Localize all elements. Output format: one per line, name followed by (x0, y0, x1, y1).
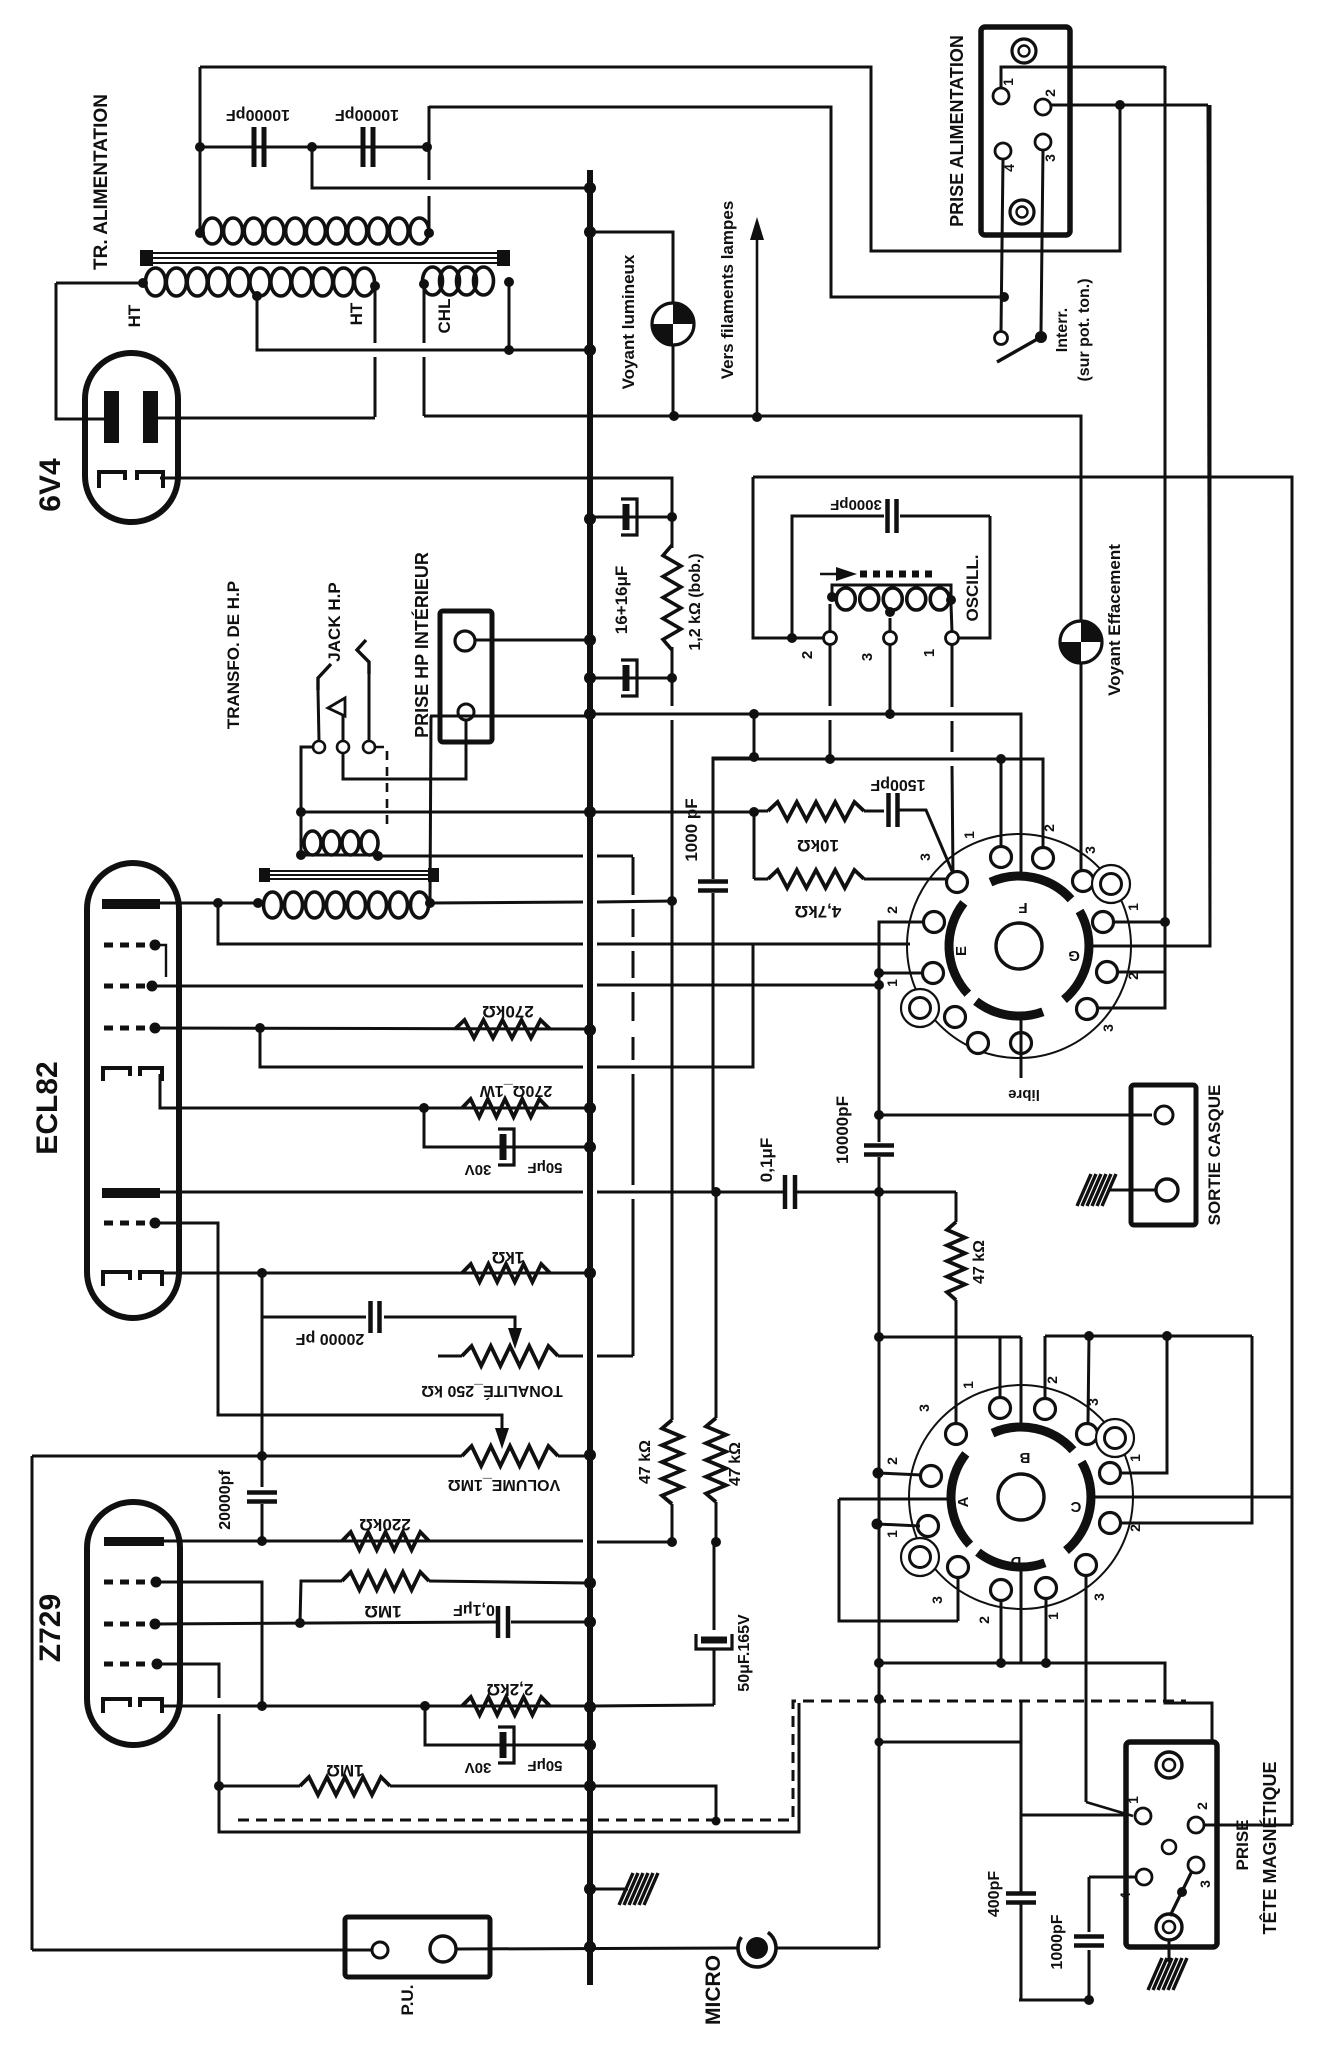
pin S1 outer b (901, 989, 939, 1027)
node osc right (946, 595, 956, 605)
wire lamp top feed (590, 232, 673, 303)
node top rail junction (1115, 100, 1125, 110)
label 30V a (465, 1161, 492, 1178)
svg-text:HT: HT (125, 304, 144, 327)
capacitor C11 20000pF (371, 1301, 380, 1333)
wire jack tri lead (342, 716, 345, 741)
node 16uF bot j (667, 673, 677, 683)
pin jack 2 (337, 741, 349, 753)
svg-text:0,1μF: 0,1μF (453, 1601, 495, 1618)
label alim 1 (1000, 78, 1016, 86)
label S2 A (955, 1496, 972, 1507)
svg-text:TRANSFO. DE H.P: TRANSFO. DE H.P (224, 581, 243, 729)
node T1 primary right (424, 228, 434, 238)
node bus junction 9 (584, 1102, 596, 1114)
capacitor C9 0,1uF (785, 1175, 795, 1209)
node S1 pin1l j (874, 968, 884, 978)
svg-text:1: 1 (961, 831, 977, 839)
label S1 n1r (1125, 903, 1141, 911)
pin S1 p8 (1097, 962, 1118, 983)
switch interrupter (995, 331, 1048, 362)
resistor R5 47k v (662, 1420, 682, 1504)
wire 16uF cap1 line (590, 516, 672, 519)
screw tete top (1156, 1752, 1182, 1778)
wire S2 pin1l (877, 1524, 920, 1526)
label osc 1 (921, 649, 938, 657)
capacitor C17 50uF165V (696, 1634, 732, 1649)
svg-text:10000pF: 10000pF (833, 1096, 852, 1164)
svg-text:HT: HT (347, 302, 366, 325)
wire S2 B stub (1020, 1337, 1023, 1427)
wire x1021 v (1020, 1700, 1023, 1893)
label 270ohm 1W (479, 1082, 552, 1099)
wire V3 g1 tie (156, 1582, 262, 1706)
wire x754 v (753, 812, 756, 879)
label ECL82 (31, 1061, 64, 1154)
label S2 n1r (1127, 1454, 1143, 1462)
svg-text:3: 3 (929, 1596, 945, 1604)
wire micro branch (879, 1741, 1021, 1744)
capacitor C3 16uF (619, 499, 637, 535)
pin S1 p9 (945, 1007, 966, 1028)
wire S2 pin3r (1088, 1336, 1089, 1423)
node S2 c6 j (1084, 1331, 1094, 1341)
resistor R13 1M (342, 1572, 429, 1590)
pin S1 p12 (1011, 1033, 1032, 1054)
svg-text:3: 3 (1197, 1880, 1213, 1888)
svg-text:400pF: 400pF (986, 1871, 1003, 1917)
node bus junction 13 (584, 1577, 596, 1589)
transformer osc core dashes (860, 571, 934, 578)
wire S2 pin2l (878, 1473, 922, 1475)
tube V2 g4 dashes (104, 1221, 150, 1226)
wire T2 sec right lead (430, 901, 673, 903)
wire r1 bottom (671, 647, 674, 706)
wire r3 left (754, 878, 768, 881)
label 270k (482, 1002, 533, 1021)
svg-text:TÊTE MAGNÉTIQUE: TÊTE MAGNÉTIQUE (1259, 1761, 1280, 1934)
node V3 k j2 (420, 1701, 430, 1711)
wire jack3 dashed (375, 747, 387, 828)
node bus junction 6 (584, 708, 596, 720)
node S2 pin2l j (873, 1468, 884, 1479)
node V3 k j1 (257, 1701, 267, 1711)
wire pin1 line (1021, 1814, 1126, 1817)
wire S2 pin1b (1045, 1599, 1048, 1663)
wire S2 pin1t (999, 1352, 1002, 1397)
label 6V4 (34, 458, 67, 512)
svg-text:1MΩ: 1MΩ (326, 1761, 363, 1780)
label HT left (125, 304, 144, 327)
pin S1 p1 (991, 847, 1012, 868)
pin S1 p7 (923, 963, 944, 984)
resistor R3 4,7k (768, 870, 864, 888)
pin S1 outer a (1092, 865, 1130, 903)
wire 3000pF left riser (792, 516, 884, 638)
tube V3 g1 dashes (104, 1580, 152, 1585)
wire 165v riser (713, 1542, 716, 1630)
wire pin4 line (1089, 1876, 1137, 1879)
svg-text:2: 2 (1127, 1524, 1143, 1532)
wire V3 g2 line (155, 1622, 497, 1624)
label 0,1uF b (453, 1601, 495, 1618)
wire osc2 down (829, 645, 832, 759)
wire filaments arrow (750, 217, 764, 417)
wire x262 chain (261, 1273, 264, 1487)
svg-text:libre: libre (1008, 1086, 1040, 1103)
wire HT left lead (56, 282, 143, 285)
wire main vertical bus (587, 170, 593, 1985)
lamp voyant lumineux (652, 303, 694, 345)
pin S1 p11 (968, 1033, 989, 1054)
tube V2 g2 dashes (104, 984, 148, 989)
label 2,2k (487, 1680, 534, 1699)
label TR. ALIMENTATION (91, 94, 112, 270)
pin S2 p1 (990, 1398, 1011, 1419)
connector alim box (981, 27, 1070, 235)
pin osc 1 (946, 632, 959, 645)
svg-text:PRISE ALIMENTATION: PRISE ALIMENTATION (947, 35, 967, 227)
capacitor C14 50uF 30V (496, 1727, 514, 1763)
svg-text:Interr.: Interr. (1054, 308, 1071, 352)
label S1 n3b (1100, 1024, 1116, 1032)
label S2 n1b (1045, 1612, 1061, 1620)
svg-text:10kΩ: 10kΩ (797, 836, 839, 855)
node lamp feed j (584, 226, 596, 238)
label S1 E (953, 946, 970, 956)
capacitor C1 10000pF (254, 127, 264, 167)
svg-text:C: C (1070, 1498, 1081, 1515)
svg-text:ECL82: ECL82 (31, 1061, 64, 1154)
svg-text:50μF.165V: 50μF.165V (736, 1614, 753, 1692)
label PRISE TETE 2 (1259, 1761, 1280, 1934)
svg-text:3: 3 (859, 653, 876, 661)
label S1 n3tl (917, 853, 933, 861)
pin alim 3 (1035, 134, 1051, 150)
node primary elbow junction (999, 292, 1009, 302)
resistor R10 tonalite pot (462, 1346, 558, 1366)
wire pot right (558, 1355, 633, 1358)
node bus junction 12 (584, 1449, 596, 1461)
node V2 g2 (147, 981, 158, 992)
pin S2 p9 (948, 1557, 969, 1578)
wire tonalite riser (378, 856, 633, 1356)
node shield tap (712, 1817, 721, 1826)
label 0,1uF v (757, 1138, 776, 1182)
capacitor C16 1000pF (1074, 1937, 1104, 1946)
screw alim bottom (1010, 200, 1034, 224)
pin S2 p10 (1076, 1555, 1097, 1576)
wire heater to right (674, 416, 1081, 620)
label C1 10000pF (226, 106, 290, 123)
svg-text:20000pf: 20000pf (217, 1470, 234, 1530)
svg-text:SORTIE CASQUE: SORTIE CASQUE (1205, 1085, 1224, 1226)
capacitor C6 3000pF (888, 499, 897, 533)
tube V3 Z729 envelope (87, 1502, 180, 1745)
label P.U. (398, 1985, 417, 2016)
transformer T1 secondary HT coil (145, 268, 374, 296)
label 1,2k bob (687, 553, 704, 650)
label 1k (492, 1248, 525, 1267)
label 16+16uF (612, 566, 631, 635)
node V3 1M j (295, 1618, 305, 1628)
label S2 C (1070, 1498, 1081, 1515)
label S2 n2l (884, 1457, 900, 1465)
wire osc3 down (889, 645, 892, 714)
wire sec tap down (257, 296, 586, 350)
resistor R9 1k (462, 1264, 550, 1282)
label VOLUME (448, 1476, 561, 1493)
label 47k v2 (637, 1440, 654, 1484)
wire screen line y714 (590, 714, 1021, 876)
wire c13 right (511, 1621, 586, 1624)
node x879 1699 (874, 1694, 884, 1704)
svg-text:MICRO: MICRO (702, 1955, 725, 2025)
label S2 n3tl (916, 1404, 932, 1412)
label S2 n3tr (1085, 1398, 1101, 1406)
wire r1 top (671, 517, 674, 548)
wire line y640 (476, 639, 590, 642)
wire CHL left down (423, 284, 426, 416)
tube V2 ECL82 envelope (87, 863, 179, 1318)
wire S1 pin1l lead (879, 972, 922, 975)
pin casque 1 (1155, 1106, 1173, 1124)
wire 1000pF riser (712, 759, 715, 879)
label S2 n1t (960, 1381, 976, 1389)
tube V1 plate bar 1 (104, 391, 119, 443)
connector tete box (1126, 1742, 1217, 1947)
node S2 pin3b j (996, 1658, 1006, 1668)
label osc 2 (799, 651, 816, 659)
pin S2 p11 (991, 1580, 1012, 1601)
pin PU 1 (372, 1942, 388, 1958)
wire 16uF cap2 line (590, 677, 672, 680)
svg-text:1,2 kΩ (bob.): 1,2 kΩ (bob.) (687, 553, 704, 650)
svg-text:1: 1 (1127, 1454, 1143, 1462)
label 1M a (364, 1602, 401, 1621)
node S2 pin1r j (1162, 1331, 1172, 1341)
wire jack1 elbow (301, 747, 313, 855)
transformer T1 primary coil (203, 218, 429, 244)
wire V2 k1 line (160, 1074, 586, 1108)
node V2 g1 j (255, 1023, 265, 1033)
pin S1 p4 (1073, 871, 1094, 892)
node V2 k2 j (257, 1268, 267, 1278)
svg-text:TR. ALIMENTATION: TR. ALIMENTATION (91, 94, 112, 270)
wire r3 right (864, 878, 950, 881)
wire V3 k line ext (594, 1705, 714, 1706)
wire gnd stub (590, 1888, 628, 1891)
wire c11 to pot (384, 1317, 515, 1340)
wire big loop left (753, 477, 827, 638)
label Interr 1 (1054, 308, 1071, 352)
wire speaker line y716 (430, 715, 590, 718)
coil L1 OSCILL (836, 588, 949, 610)
capacitor C15 400pF (1006, 1894, 1036, 1903)
wire S1 E line (753, 943, 910, 946)
node T2 sec left (253, 898, 263, 908)
wire S2 left rect (839, 1499, 958, 1621)
node T1 sec right (370, 281, 380, 291)
wire S2 C line (1091, 1496, 1292, 1499)
wire primary top elbow (429, 107, 999, 297)
pin jack 1 (313, 741, 325, 753)
wire x879 down (878, 985, 881, 1142)
node bus junction 5 (584, 672, 596, 684)
wire S2 pin1r (1121, 1336, 1167, 1473)
wire primary right riser (428, 106, 431, 180)
transformer T2 secondary coil (264, 892, 429, 918)
svg-text:1500pF: 1500pF (870, 776, 925, 793)
label S1 n3tr (1082, 846, 1098, 854)
node y760 pin1 (996, 754, 1006, 764)
pin alim 1 (993, 88, 1009, 104)
pin S2 p12 (1036, 1578, 1057, 1599)
pin S2 p8 (1100, 1513, 1121, 1534)
wire big loop top (753, 477, 1292, 1825)
node r5 j (667, 1537, 677, 1547)
label S2 n2t (1044, 1376, 1060, 1384)
node filaments j (752, 412, 762, 422)
node CHL right (504, 277, 514, 287)
wire line y812 (301, 811, 754, 814)
label tete 1 (1125, 1796, 1141, 1804)
wire x219 down (219, 1703, 799, 1832)
node x672 HP j (667, 896, 677, 906)
pin S2 p2 (1035, 1399, 1056, 1420)
node bus junction 10 (584, 1141, 596, 1153)
svg-text:B: B (1019, 1449, 1030, 1466)
screw tete bottom (1156, 1914, 1182, 1940)
wire volume right (558, 1455, 586, 1458)
svg-text:JACK H.P: JACK H.P (325, 582, 344, 661)
node T1 primary left (195, 228, 205, 238)
svg-text:270Ω_1W: 270Ω_1W (479, 1082, 552, 1099)
label SORTIE CASQUE (1205, 1085, 1224, 1226)
label libre (1008, 1086, 1040, 1103)
connector sortie casque box (1131, 1085, 1196, 1225)
tube V3 plate bar (104, 1537, 164, 1546)
capacitor C8 10000pF (864, 1146, 894, 1155)
label TONALITE (421, 1382, 563, 1401)
node bus junction 15 (584, 1701, 596, 1713)
pin S1 p6 (1093, 912, 1114, 933)
svg-text:47 kΩ: 47 kΩ (971, 1240, 988, 1284)
wire HT right down (374, 286, 377, 417)
wire S1 pin1r line (1114, 921, 1165, 924)
svg-text:50μF: 50μF (527, 1757, 562, 1774)
svg-text:4,7kΩ: 4,7kΩ (795, 902, 842, 921)
node V2 k1 j (419, 1103, 429, 1113)
wire 3000pF right (900, 515, 990, 518)
svg-text:1000pF: 1000pF (1049, 1914, 1066, 1969)
node V2 g1 (150, 1023, 161, 1034)
label OSCILL. (963, 554, 982, 621)
label tete 2 (1194, 1802, 1210, 1810)
wire 1M right (429, 1581, 586, 1583)
wire V2 g2 line (152, 985, 879, 986)
svg-text:G: G (1068, 947, 1080, 964)
svg-text:(sur pot. ton.): (sur pot. ton.) (1076, 278, 1093, 381)
wire S2 pin3bl stub (957, 1577, 960, 1621)
wire alim pin3 down (1041, 150, 1043, 332)
connector PU box (345, 1917, 490, 1977)
svg-text:1: 1 (1125, 903, 1141, 911)
node S1 pin1r j (1160, 917, 1170, 927)
wire volume line (32, 1455, 462, 1458)
wire tonalite left stub (438, 1355, 462, 1358)
label 1M b (326, 1761, 363, 1780)
svg-text:3: 3 (1082, 846, 1098, 854)
wire casque gnd (1110, 1189, 1156, 1192)
wire osc2 lead (829, 604, 832, 632)
svg-text:F: F (1018, 899, 1027, 916)
screw alim top (1012, 39, 1036, 63)
label S1 G (1068, 947, 1080, 964)
svg-text:3000pF: 3000pF (830, 496, 882, 513)
wire osc coil top (832, 585, 951, 600)
resistor R12 220k (342, 1532, 429, 1550)
label CHL (435, 299, 454, 334)
svg-text:1: 1 (960, 1381, 976, 1389)
node osc left (827, 592, 837, 602)
socket S1 body (907, 834, 1131, 1058)
wire osc1 down (952, 645, 953, 875)
label Interr 2 (1076, 278, 1093, 381)
node osc tap (885, 607, 895, 617)
wire 1000pF v (1088, 1877, 1091, 1932)
pin S2 p7 (918, 1516, 939, 1537)
wire V3 g3 line (157, 1664, 219, 1698)
resistor R15 1M b (300, 1777, 390, 1795)
label S1 n1l (884, 979, 900, 987)
wire x672 down (671, 720, 674, 1420)
wire tonalite arrow (508, 1328, 522, 1349)
pin alim 4 (995, 143, 1011, 159)
label S2 n2b (976, 1616, 992, 1624)
node cap rail mid (307, 142, 317, 152)
wire 1M riser (300, 1581, 342, 1623)
tube V2 g1 dashes (104, 1026, 150, 1031)
svg-text:2: 2 (884, 1457, 900, 1465)
node 220k j (257, 1536, 267, 1546)
node cap rail right (422, 142, 432, 152)
node bus junction 8 (584, 1024, 596, 1036)
wire 1Mb right (390, 1785, 586, 1788)
wire r6 bot (715, 1502, 718, 1542)
capacitor C13 0,1uF (498, 1606, 508, 1638)
label 1000pF b (1049, 1914, 1066, 1969)
wire x262 chain b (261, 1504, 264, 1541)
pin prise HP 2 (458, 704, 474, 720)
wire V2 g1 line (155, 1028, 586, 1029)
label 50uF a (527, 1159, 562, 1176)
tube V2 plate2 bar (102, 1188, 160, 1198)
pin osc 2 (824, 632, 837, 645)
label S2 n1l (884, 1530, 900, 1538)
wire 50uF30b branch (425, 1706, 586, 1745)
svg-text:16+16μF: 16+16μF (612, 566, 631, 635)
wire S2 pin2t (1044, 1336, 1047, 1398)
mic MICRO symbol (738, 1932, 776, 1967)
pin jack 3 (363, 741, 375, 753)
wire S1 G line (1089, 105, 1210, 946)
pin S1 p10 (1077, 999, 1098, 1020)
label PRISE ALIMENTATION (947, 35, 967, 227)
label S1 n2l (884, 906, 900, 914)
node g2 j (874, 980, 884, 990)
pin tete 3 (1188, 1857, 1204, 1873)
